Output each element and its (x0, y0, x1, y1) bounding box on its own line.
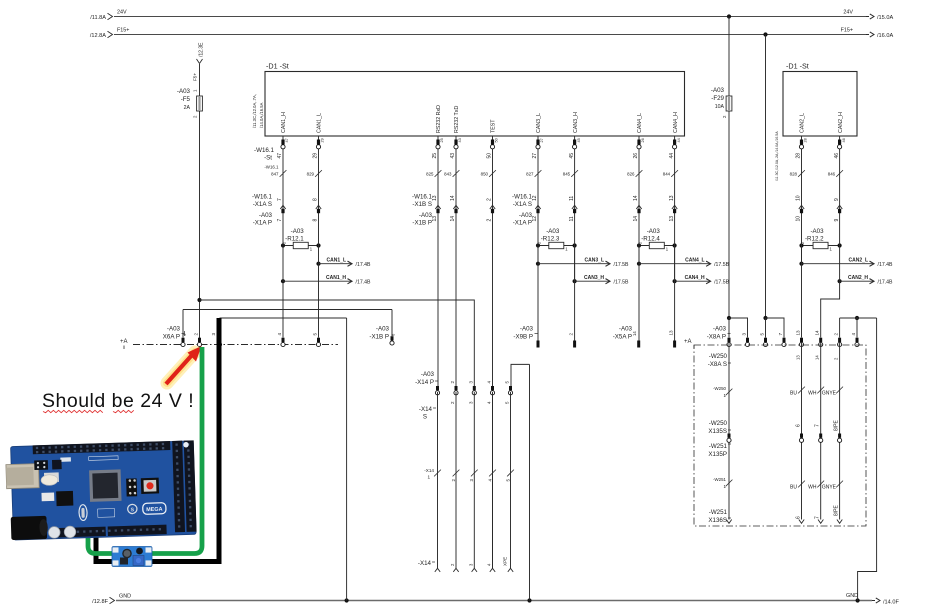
svg-text:47: 47 (277, 153, 283, 159)
svg-text:12: 12 (532, 216, 538, 222)
svg-text:2: 2 (569, 333, 574, 336)
svg-text:10: 10 (796, 216, 802, 222)
svg-text:3: 3 (741, 333, 746, 336)
svg-text:5: 5 (313, 333, 318, 336)
svg-text:13: 13 (795, 355, 800, 360)
svg-text:CAN2_L: CAN2_L (800, 113, 806, 133)
svg-text:24V: 24V (117, 10, 127, 16)
svg-text:9: 9 (834, 219, 840, 222)
svg-text:4: 4 (851, 333, 856, 336)
svg-text:-R12.4: -R12.4 (641, 236, 660, 243)
svg-text:-A03: -A03 (713, 326, 727, 333)
svg-text:43: 43 (458, 138, 462, 142)
svg-text:/14.0F: /14.0F (883, 600, 899, 606)
svg-text:CAN2_L: CAN2_L (849, 258, 868, 264)
svg-text:846: 846 (828, 171, 836, 176)
svg-text:/15.0A: /15.0A (877, 15, 893, 21)
svg-text:14: 14 (632, 331, 637, 336)
svg-text:S: S (423, 414, 427, 421)
svg-text:826: 826 (627, 171, 635, 176)
svg-text:/12.3E: /12.3E (199, 42, 205, 57)
svg-text:844: 844 (663, 171, 671, 176)
svg-text:14: 14 (815, 330, 820, 336)
svg-text:13: 13 (432, 195, 438, 201)
svg-text:WH: WH (808, 391, 817, 397)
svg-text:24V: 24V (843, 10, 853, 16)
svg-text:MEGA: MEGA (146, 507, 163, 514)
svg-text:-A03: -A03 (291, 228, 305, 235)
svg-text:44: 44 (677, 138, 681, 142)
svg-text:-A03: -A03 (376, 326, 390, 333)
svg-text:-A03: -A03 (259, 212, 273, 219)
svg-text:/17.5B: /17.5B (614, 262, 630, 268)
svg-text:CAN4_H: CAN4_H (685, 275, 705, 281)
svg-text:RS232 TxD: RS232 TxD (454, 106, 460, 133)
svg-text:50: 50 (487, 153, 493, 159)
svg-text:-X14: -X14 (418, 560, 432, 567)
svg-text:/16.0A: /16.0A (877, 33, 893, 39)
svg-text:11: 11 (569, 196, 575, 201)
svg-text:CAN4_L: CAN4_L (685, 258, 704, 264)
svg-text:/17.5B: /17.5B (614, 279, 630, 285)
svg-text:-W250: -W250 (709, 420, 728, 427)
svg-text:/17.5B: /17.5B (714, 262, 730, 268)
svg-text:X6A P: X6A P (163, 334, 180, 341)
svg-text:/11.3C,/12.0A,.2A,/14.0A,/16.5: /11.3C,/12.0A,.2A,/14.0A,/16.5A (775, 131, 779, 181)
svg-text:RS232 RxD: RS232 RxD (436, 105, 442, 133)
svg-text:7: 7 (815, 424, 821, 427)
svg-text:25: 25 (440, 138, 444, 142)
svg-text:-W250: -W250 (713, 386, 726, 391)
svg-text:CAN1_H: CAN1_H (281, 112, 287, 133)
svg-text:CAN3_L: CAN3_L (536, 113, 542, 133)
svg-text:14: 14 (450, 216, 456, 222)
svg-text:/12.8F: /12.8F (92, 599, 108, 605)
svg-text:-A03: -A03 (520, 326, 534, 333)
svg-text:-A03: -A03 (619, 326, 633, 333)
svg-text:46: 46 (834, 153, 840, 159)
svg-text:11: 11 (569, 216, 575, 221)
svg-text:-A03: -A03 (167, 326, 181, 333)
svg-text:8/PE: 8/PE (834, 419, 840, 431)
svg-text:-W251: -W251 (709, 443, 728, 450)
svg-text:13: 13 (669, 330, 674, 336)
svg-text:828: 828 (790, 171, 798, 176)
svg-text:10A: 10A (715, 104, 725, 110)
svg-text:14: 14 (633, 216, 639, 222)
svg-text:29: 29 (321, 138, 325, 142)
svg-text:CAN1_H: CAN1_H (326, 275, 346, 281)
svg-text:-D1 -St: -D1 -St (786, 62, 809, 71)
svg-text:X135P: X135P (708, 451, 727, 458)
svg-text:-X9B P: -X9B P (513, 334, 533, 341)
svg-text:/11.3C,/12.0A,.7A,: /11.3C,/12.0A,.7A, (252, 94, 257, 128)
svg-text:28: 28 (796, 153, 802, 159)
svg-text:BU: BU (790, 485, 797, 491)
svg-text:26: 26 (641, 138, 645, 142)
svg-text:8: 8 (313, 219, 319, 222)
svg-text:2: 2 (833, 333, 838, 336)
svg-text:845: 845 (563, 171, 571, 176)
svg-text:-F29: -F29 (711, 95, 724, 102)
svg-text:5: 5 (759, 333, 764, 336)
svg-text:-R12.2: -R12.2 (805, 236, 824, 243)
svg-text:-A03: -A03 (519, 212, 533, 219)
svg-text:/11.8A: /11.8A (90, 15, 106, 21)
svg-text:850: 850 (481, 171, 489, 176)
svg-text:2: 2 (487, 219, 493, 222)
svg-text:45: 45 (577, 138, 581, 142)
svg-text:S: S (131, 507, 135, 513)
svg-text:CAN4_L: CAN4_L (637, 113, 643, 133)
svg-text:6: 6 (796, 516, 802, 519)
svg-text:9: 9 (834, 198, 840, 201)
svg-text:13: 13 (669, 195, 675, 201)
svg-text:28: 28 (804, 138, 808, 142)
svg-text:2: 2 (487, 198, 493, 201)
svg-text:-X1A S: -X1A S (253, 201, 272, 208)
svg-text:3: 3 (211, 333, 216, 336)
svg-text:14: 14 (633, 195, 639, 201)
svg-text:45: 45 (569, 153, 575, 159)
svg-text:13: 13 (669, 216, 675, 222)
svg-text:4: 4 (277, 333, 282, 336)
svg-text:-D1 -St: -D1 -St (266, 62, 289, 71)
svg-text:825: 825 (426, 171, 434, 176)
svg-text:7: 7 (277, 219, 283, 222)
svg-text:CAN3_L: CAN3_L (585, 258, 604, 264)
svg-text:2: 2 (194, 333, 199, 336)
svg-text:-St: -St (264, 155, 272, 162)
svg-text:+A: +A (120, 339, 128, 345)
svg-text:-X8A P: -X8A P (707, 334, 726, 341)
svg-text:-F5: -F5 (181, 96, 191, 103)
svg-text:X136S: X136S (708, 517, 727, 524)
svg-text:-A03: -A03 (419, 212, 433, 219)
svg-text:-W16.1: -W16.1 (252, 194, 273, 201)
svg-text:-X1A S: -X1A S (513, 201, 532, 208)
svg-text:-W16.1: -W16.1 (512, 194, 533, 201)
svg-text:TEST: TEST (491, 119, 497, 133)
svg-text:13: 13 (795, 330, 800, 336)
svg-text:7: 7 (815, 516, 821, 519)
svg-text:-W16.1: -W16.1 (254, 147, 275, 154)
svg-text:7: 7 (277, 198, 283, 201)
svg-text:47: 47 (285, 138, 289, 142)
svg-text:25: 25 (432, 153, 438, 159)
svg-text:8: 8 (313, 198, 319, 201)
svg-text:-X8A S: -X8A S (708, 361, 727, 368)
svg-text:8/PE: 8/PE (834, 504, 840, 516)
svg-text:50: 50 (495, 138, 499, 142)
svg-text:27: 27 (532, 153, 538, 159)
svg-text:F5+: F5+ (193, 73, 198, 81)
svg-text:GNYE: GNYE (822, 391, 837, 397)
svg-text:GND: GND (119, 594, 131, 600)
svg-text:847: 847 (271, 171, 279, 176)
svg-text:829: 829 (307, 171, 315, 176)
svg-text:CAN1_L: CAN1_L (317, 113, 323, 133)
svg-text:F15+: F15+ (841, 28, 853, 34)
svg-text:BU: BU (790, 391, 797, 397)
svg-text:CAN3_H: CAN3_H (573, 112, 579, 133)
svg-text:44: 44 (669, 153, 675, 159)
svg-text:/12.8A: /12.8A (90, 33, 106, 39)
svg-text:-X5A P: -X5A P (613, 334, 632, 341)
svg-text:14: 14 (815, 355, 820, 360)
svg-text:27: 27 (540, 138, 544, 142)
svg-text:26: 26 (633, 153, 639, 159)
svg-text:+A: +A (684, 339, 692, 345)
svg-text:/14.0A,/16.5A: /14.0A,/16.5A (259, 102, 264, 128)
svg-text:F15+: F15+ (117, 28, 129, 34)
svg-text:GNYE: GNYE (822, 485, 837, 491)
svg-text:CAN1_L: CAN1_L (327, 258, 346, 264)
svg-text:1: 1 (427, 475, 430, 480)
svg-text:XPE: XPE (503, 557, 508, 566)
svg-text:-W251: -W251 (709, 509, 728, 516)
svg-text:WH: WH (808, 485, 817, 491)
svg-text:6: 6 (796, 424, 802, 427)
svg-text:13: 13 (432, 216, 438, 222)
svg-text:43: 43 (450, 153, 456, 159)
svg-text:/17.4B: /17.4B (878, 262, 894, 268)
svg-text:/17.4B: /17.4B (356, 262, 372, 268)
svg-text:-X1A P: -X1A P (513, 220, 532, 227)
svg-text:-A03: -A03 (647, 228, 661, 235)
svg-text:10: 10 (796, 195, 802, 201)
svg-text:46: 46 (842, 138, 846, 142)
svg-text:-X14: -X14 (424, 468, 434, 473)
svg-text:CAN2_H: CAN2_H (838, 112, 844, 133)
svg-text:CAN4_H: CAN4_H (673, 112, 679, 133)
svg-text:-A03: -A03 (810, 228, 824, 235)
svg-text:-X1A P: -X1A P (253, 220, 272, 227)
svg-text:Should be 24 V !: Should be 24 V ! (42, 390, 194, 412)
svg-text:-X14: -X14 (419, 406, 433, 413)
svg-text:-R12.3: -R12.3 (541, 236, 560, 243)
svg-text:CAN3_H: CAN3_H (584, 275, 604, 281)
svg-text:-W251: -W251 (713, 477, 726, 482)
svg-text:/17.4B: /17.4B (878, 279, 894, 285)
svg-text:-X1B S: -X1B S (412, 201, 432, 208)
svg-text:/17.5B: /17.5B (714, 279, 730, 285)
svg-text:/17.4B: /17.4B (356, 279, 372, 285)
svg-text:-A03: -A03 (546, 228, 560, 235)
svg-text:2A: 2A (184, 105, 191, 111)
svg-text:-X14 P: -X14 P (415, 379, 434, 386)
svg-text:-A03: -A03 (421, 371, 435, 378)
svg-text:12: 12 (532, 195, 538, 201)
svg-text:X135S: X135S (708, 428, 727, 435)
svg-text:-X1B P: -X1B P (369, 334, 389, 341)
svg-text:GND: GND (846, 593, 858, 599)
svg-text:-A03: -A03 (177, 88, 191, 95)
svg-text:CAN2_H: CAN2_H (848, 275, 868, 281)
svg-text:-W250: -W250 (709, 353, 728, 360)
svg-text:-R12.1: -R12.1 (285, 236, 304, 243)
svg-text:843: 843 (444, 171, 452, 176)
svg-text:827: 827 (526, 171, 534, 176)
svg-text:-W16.1: -W16.1 (264, 164, 279, 169)
svg-text:-W16.1: -W16.1 (412, 194, 433, 201)
svg-text:-A03: -A03 (711, 87, 725, 94)
svg-text:29: 29 (313, 153, 319, 159)
svg-text:-X1B P: -X1B P (412, 220, 432, 227)
svg-text:14: 14 (450, 195, 456, 201)
svg-text:7: 7 (778, 333, 783, 336)
